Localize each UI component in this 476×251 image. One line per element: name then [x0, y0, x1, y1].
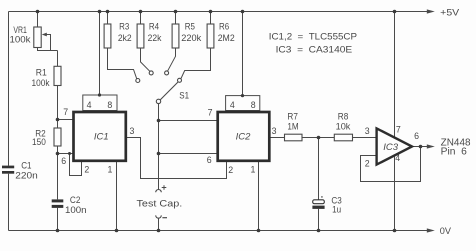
- svg-text:Pin 6: Pin 6: [441, 147, 468, 158]
- svg-text:6: 6: [207, 155, 212, 165]
- svg-text:2M2: 2M2: [218, 33, 235, 43]
- arrowhead IC3 output: [427, 144, 435, 148]
- wire R1 top: [57, 51, 59, 67]
- resistor R4: [137, 24, 144, 48]
- svg-text:220k: 220k: [181, 33, 201, 43]
- svg-text:IC3: IC3: [383, 142, 399, 153]
- wire C2 to 0V: [57, 208, 59, 231]
- wire IC2 pin 6: [159, 153, 218, 155]
- wire bottom 0V rail: [9, 230, 429, 232]
- arrowhead 0V: [427, 228, 435, 232]
- wire R4 top feed: [140, 12, 142, 25]
- svg-text:1M: 1M: [287, 122, 298, 132]
- wire R8 to IC3: [353, 137, 377, 139]
- IC1 supply box pins 4-8: [83, 95, 117, 111]
- svg-text:1: 1: [251, 164, 256, 174]
- op-amp IC3 triangle: [377, 128, 412, 164]
- resistor R3: [104, 24, 111, 48]
- svg-text:7: 7: [396, 124, 401, 134]
- wire IC2 pin 1 to 0V: [258, 162, 260, 231]
- svg-text:R1: R1: [36, 68, 47, 78]
- svg-text:VR1: VR1: [13, 25, 27, 35]
- svg-text:8: 8: [107, 100, 112, 110]
- svg-text:4: 4: [230, 100, 235, 110]
- wire R3 top feed: [107, 12, 109, 25]
- resistor R5: [172, 24, 179, 48]
- svg-text:1u: 1u: [332, 205, 341, 215]
- svg-text:7: 7: [208, 108, 213, 118]
- resistor R7: [285, 134, 303, 141]
- svg-text:100k: 100k: [10, 35, 32, 45]
- resistor VR1: [34, 27, 41, 48]
- svg-text:R4: R4: [149, 22, 159, 32]
- IC1 timer body: [74, 112, 126, 161]
- wire IC3 feedback pin 2: [361, 147, 421, 182]
- capacitor C3 electrolytic: [313, 200, 325, 204]
- wire C3 to 0V: [318, 209, 320, 231]
- svg-text:3: 3: [365, 126, 370, 136]
- switch S1 pole: [156, 99, 160, 103]
- svg-text:R8: R8: [338, 111, 349, 121]
- wire IC1 pin 1 to 0V: [116, 162, 118, 231]
- wire R5 top feed: [175, 12, 177, 25]
- svg-text:6: 6: [61, 156, 66, 166]
- svg-text:R3: R3: [119, 22, 129, 32]
- wire S1 pole down: [158, 104, 160, 190]
- wire IC1 supply 4-8: [99, 12, 101, 96]
- svg-text:IC1: IC1: [94, 131, 109, 142]
- svg-text:R6: R6: [219, 22, 229, 32]
- IC2 supply box pins 4-8: [226, 96, 260, 111]
- wire left rail upper: [8, 12, 10, 166]
- wire left rail lower: [8, 174, 10, 231]
- svg-text:2: 2: [365, 158, 370, 168]
- wire R5 to contact c: [168, 48, 176, 71]
- wire IC3 output: [412, 146, 430, 148]
- svg-text:+5V: +5V: [440, 8, 459, 18]
- svg-text:C2: C2: [70, 195, 81, 205]
- wire test cap minus to 0V: [158, 218, 160, 230]
- svg-text:100n: 100n: [65, 205, 87, 215]
- wire IC3 pin 4 to 0V: [394, 156, 396, 231]
- svg-text:3: 3: [272, 126, 277, 136]
- wire R3 to contact a: [108, 48, 137, 79]
- svg-text:7: 7: [63, 107, 68, 117]
- wire IC3 pin 7 supply: [394, 12, 396, 138]
- svg-text:IC2: IC2: [236, 131, 252, 142]
- node test cap plus sign: [162, 185, 167, 190]
- switch S1 contact b: [149, 71, 153, 75]
- svg-text:IC3 = CA3140E: IC3 = CA3140E: [276, 44, 353, 54]
- wire R6 top feed: [210, 12, 212, 25]
- wire IC2 pin 3 to R7: [269, 137, 284, 139]
- svg-text:C1: C1: [21, 161, 31, 171]
- wire R1 bottom to R2: [57, 86, 59, 129]
- resistor R2: [54, 128, 61, 146]
- svg-text:2k2: 2k2: [118, 33, 132, 43]
- wire IC1 pin 2 hook: [70, 154, 82, 176]
- wire C3 branch: [318, 138, 320, 200]
- test capacitor terminal minus: [156, 215, 162, 218]
- wire IC2 pin 7: [159, 120, 218, 122]
- svg-text:8: 8: [251, 100, 256, 110]
- svg-text:S1: S1: [179, 90, 189, 100]
- wire top +5V rail: [9, 11, 429, 13]
- svg-text:1: 1: [108, 164, 113, 174]
- resistor R1: [54, 66, 61, 85]
- switch S1 contact c: [165, 71, 169, 75]
- wire IC1 pin 6: [58, 153, 75, 155]
- wire IC1 pin 7: [58, 119, 75, 121]
- svg-text:4: 4: [87, 100, 92, 110]
- svg-text:Test Cap.: Test Cap.: [137, 199, 183, 209]
- svg-text:2: 2: [84, 165, 89, 175]
- arrowhead +5V: [427, 9, 435, 13]
- wire R6 to contact d: [181, 48, 211, 79]
- svg-text:10k: 10k: [336, 122, 351, 132]
- svg-text:100k: 100k: [32, 78, 50, 88]
- wire VR1 top feed: [37, 12, 39, 28]
- wire R4 to contact b: [141, 48, 150, 71]
- svg-text:R7: R7: [287, 111, 298, 121]
- resistor R8: [334, 134, 352, 141]
- capacitor C1: [2, 166, 14, 174]
- svg-text:IC1,2 = TLC555CP: IC1,2 = TLC555CP: [269, 32, 357, 42]
- svg-text:4: 4: [395, 153, 400, 163]
- IC2 timer body: [218, 112, 270, 161]
- svg-text:22k: 22k: [148, 33, 162, 43]
- svg-text:220n: 220n: [15, 170, 38, 180]
- wire VR1 wiper: [45, 35, 51, 51]
- switch S1 contact d: [178, 78, 182, 82]
- switch S1 arm: [160, 82, 178, 100]
- wire R7 to R8: [302, 137, 334, 139]
- wire IC1 pin 3 trigger to IC2 pin 2: [126, 138, 227, 179]
- switch S1 contact a: [136, 79, 140, 83]
- svg-text:6: 6: [414, 131, 419, 141]
- capacitor C2: [52, 199, 64, 208]
- wire VR1 bottom elbow: [38, 48, 58, 51]
- wire IC2 supply 4-8: [242, 12, 244, 96]
- test capacitor terminal plus: [156, 190, 162, 193]
- svg-text:0V: 0V: [440, 226, 451, 236]
- svg-text:150: 150: [32, 137, 46, 147]
- svg-text:R5: R5: [185, 22, 195, 32]
- wire R2 bottom to C2: [57, 146, 59, 199]
- svg-text:2: 2: [228, 165, 233, 175]
- resistor R6: [207, 24, 214, 48]
- svg-text:3: 3: [130, 126, 135, 136]
- VR1 wiper arrowhead: [42, 33, 47, 37]
- node test cap minus sign: [162, 217, 167, 219]
